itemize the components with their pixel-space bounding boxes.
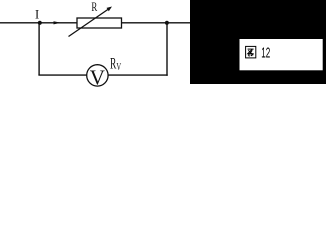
svg-text:I: I	[35, 8, 39, 22]
svg-text:R: R	[91, 0, 97, 14]
svg-text:V: V	[116, 62, 121, 73]
svg-text:12: 12	[261, 44, 270, 61]
svg-text:V: V	[90, 65, 105, 89]
